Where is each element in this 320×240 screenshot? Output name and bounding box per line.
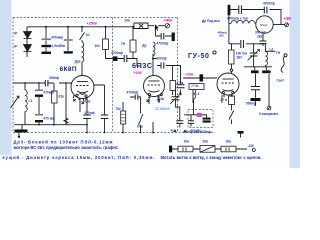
svg-text:ГУ-50: ГУ-50 <box>188 53 209 60</box>
svg-text:1м: 1м <box>121 42 126 46</box>
svg-text:4700пф: 4700пф <box>111 51 123 55</box>
svg-text:6П3С: 6П3С <box>132 61 153 70</box>
svg-text:К1: К1 <box>86 33 90 37</box>
svg-text:-17 в: -17 в <box>220 98 227 102</box>
svg-text:4700пф: 4700пф <box>263 1 275 5</box>
svg-text:L1: L1 <box>29 99 33 103</box>
svg-text:Д7: Д7 <box>14 31 18 35</box>
svg-text:+190: +190 <box>134 71 142 75</box>
svg-text:+20в: +20в <box>185 73 194 77</box>
svg-text:100пф: 100пф <box>157 57 167 61</box>
svg-text:6К8П: 6К8П <box>60 66 77 73</box>
svg-text:Др Под.вкл: Др Под.вкл <box>202 19 220 23</box>
svg-text:+250в: +250в <box>87 22 98 26</box>
svg-text:470мф: 470мф <box>44 91 55 95</box>
svg-text:К выпрямит.: К выпрямит. <box>259 112 279 116</box>
svg-text:-4,2в: -4,2в <box>83 99 90 103</box>
svg-text:10в: 10в <box>125 19 131 23</box>
svg-text:Мотать виток к витку, с концу: Мотать виток к витку, с концу жемчтом- с… <box>161 155 262 160</box>
svg-text:К1в: К1в <box>137 125 143 129</box>
svg-text:Др3- Боевой по 100вит ПЭЛ-0,12: Др3- Боевой по 100вит ПЭЛ-0,12мм <box>14 139 113 144</box>
svg-text:Др: Др <box>142 44 146 48</box>
svg-text:470пф: 470пф <box>85 111 95 115</box>
svg-text:10в: 10в <box>226 140 232 144</box>
svg-text:500пф: 500пф <box>246 101 256 105</box>
svg-text:2кв: 2кв <box>257 34 262 38</box>
svg-text:4700пф: 4700пф <box>127 90 139 94</box>
svg-text:Д7: Д7 <box>14 44 18 48</box>
svg-text:+ЦВ: +ЦВ <box>284 17 292 21</box>
svg-text:470 мф: 470 мф <box>44 116 56 120</box>
svg-text:Сант: Сант <box>277 79 285 83</box>
svg-text:470мкф: 470мкф <box>51 35 63 39</box>
svg-text:820х330: 820х330 <box>190 129 201 133</box>
svg-text:10в: 10в <box>184 140 190 144</box>
svg-text:К2к: К2к <box>59 95 65 99</box>
svg-text:470к: 470к <box>176 81 183 85</box>
svg-text:20в: 20в <box>203 139 209 143</box>
svg-text:Др2: Др2 <box>75 60 81 64</box>
svg-text:L2: L2 <box>196 92 200 96</box>
svg-text:70к: 70к <box>116 107 122 111</box>
svg-text:50мА: 50мА <box>260 23 267 27</box>
svg-text:La: La <box>270 48 274 52</box>
svg-text:4700пф: 4700пф <box>157 42 169 46</box>
svg-text:4700пф х 7кв: 4700пф х 7кв <box>227 16 248 20</box>
svg-text:2Вт: 2Вт <box>237 56 243 60</box>
svg-text:460в: 460в <box>170 129 177 133</box>
svg-text:0,5х450в: 0,5х450в <box>52 44 66 48</box>
svg-text:3х0: 3х0 <box>219 34 224 38</box>
svg-text:-4,2в: -4,2в <box>157 97 164 101</box>
svg-text:вскторе ВС-2вт, предварительно: вскторе ВС-2вт, предварительно зачистить… <box>14 145 119 150</box>
svg-text:270в: 270в <box>191 84 199 88</box>
svg-text:+НВ+: +НВ+ <box>164 19 173 23</box>
svg-text:10к: 10к <box>95 44 101 48</box>
svg-text:300пф: 300пф <box>49 76 59 80</box>
svg-text:32-680пФ: 32-680пФ <box>155 107 170 111</box>
svg-text:-220: -220 <box>248 144 255 148</box>
svg-text:кущий - Диаметр каркаса 15мм,: кущий - Диаметр каркаса 15мм, 200вит, ПЭ… <box>3 155 155 160</box>
svg-text:ГН: ГН <box>276 51 281 55</box>
